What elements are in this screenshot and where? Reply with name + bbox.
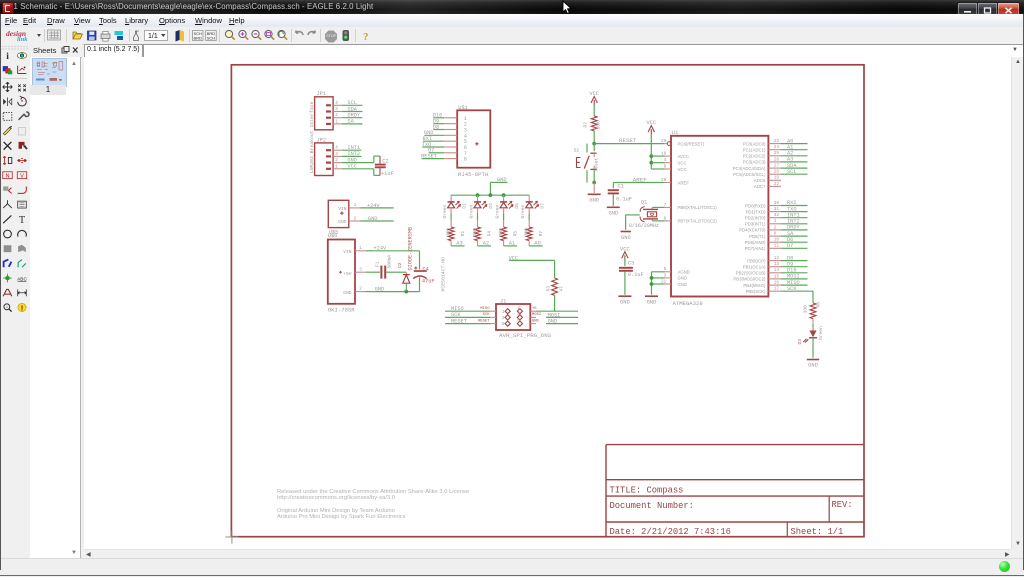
svg-text:1: 1 [335,118,338,124]
svg-text:C1: C1 [618,184,624,190]
svg-text:PC1(ADC1): PC1(ADC1) [743,148,766,153]
svg-text:16: 16 [774,281,780,286]
ground below C3 [618,296,631,305]
svg-text:23: 23 [774,139,780,144]
status bar [0,558,1024,577]
wire +5 from J1 to R3 [536,310,578,312]
tool icon wire [3,215,11,223]
svg-text:GND: GND [678,276,688,281]
svg-text:MISO: MISO [480,307,490,311]
svg-text:4: 4 [335,100,338,106]
svg-text:Green: Green [468,204,474,218]
svg-text:Document Number:: Document Number: [610,501,694,511]
power symbol VCC above C3 [620,246,630,266]
svg-text:29: 29 [661,139,667,144]
svg-text:SCK: SCK [787,286,797,292]
svg-text:Date: 2/21/2012 7:43:16: Date: 2/21/2012 7:43:16 [610,527,731,537]
ground below crystal [621,232,631,241]
svg-text:!: ! [21,305,23,312]
LED bank anode bus wire [451,193,529,197]
svg-text:SCL: SCL [347,100,357,106]
svg-text:INT1: INT1 [347,145,360,151]
svg-text:Arduino Pro Mini Design by Spa: Arduino Pro Mini Design by Spark Fun Ele… [277,514,406,520]
svg-text:30: 30 [774,201,780,206]
tool icon group [3,113,12,121]
svg-text:R6: R6 [815,302,821,308]
LED D3 [797,326,824,345]
svg-text:7: 7 [664,203,667,208]
svg-text:500mA: 500mA [387,254,393,268]
svg-text:Sheet: 1/1: Sheet: 1/1 [791,527,844,537]
tool icon erc [4,304,12,312]
connector J1 AVR_SPI_PRG_6NS [490,299,551,339]
vertical scrollbar [1011,57,1024,549]
tool icon move [3,82,12,91]
origin cross marker [225,531,238,544]
regulator U$5 [328,200,393,235]
svg-text:330: 330 [472,228,478,237]
capacitor C4 [404,251,434,294]
svg-text:PC0(ADC0): PC0(ADC0) [743,141,766,146]
tool icon rotate [18,96,27,106]
junction at RESET node [592,142,596,146]
svg-text:D7: D7 [787,243,793,249]
svg-text:330: 330 [524,228,530,237]
svg-text:GND: GND [608,211,618,217]
wire MISO to J1 [445,306,490,312]
svg-text:VCC: VCC [620,246,630,252]
LED D4 with resistor R4 to net A2 [468,195,494,247]
tool icon circle [4,230,12,238]
svg-text:Green: Green [442,204,448,218]
sheets panel body with sheet 1 thumbnail [30,57,81,558]
svg-text:3: 3 [335,151,338,157]
tool icon text [19,215,26,226]
svg-text:22: 22 [774,182,780,187]
svg-text:VCC: VCC [678,167,687,172]
svg-text:19: 19 [774,176,780,181]
svg-text:MISO: MISO [787,280,800,286]
command line entry [143,44,1024,58]
svg-text:http://creativecommons.org/lic: http://creativecommons.org/licenses/by-s… [277,495,395,501]
tool icon delete [4,142,12,150]
svg-text:PB2(SS/OC1B): PB2(SS/OC1B) [736,271,766,276]
tool icon value [17,172,26,180]
tool icon display layers [3,66,12,74]
svg-text:INT2: INT2 [787,219,800,225]
svg-text:RESET: RESET [451,318,467,324]
capacitor C3 [619,261,644,295]
U1 left pins [661,139,717,287]
resistor R2 [583,116,602,144]
svg-text:1: 1 [359,245,362,251]
svg-text:A0: A0 [787,138,793,144]
tool icon paste [19,128,26,135]
tool icon dimension [18,289,27,296]
tool icon smash [3,186,12,193]
svg-text:C2: C2 [382,159,388,165]
svg-text:GND: GND [338,219,347,225]
net label RESET [619,137,637,144]
svg-text:0.1uF: 0.1uF [628,272,644,278]
svg-text:U$1: U$1 [458,105,468,111]
connector JP2 [315,137,374,175]
svg-text:PC6(/RESET): PC6(/RESET) [678,141,705,146]
svg-text:R3: R3 [546,286,552,292]
svg-text:C4: C4 [422,267,428,273]
svg-text:RESET: RESET [421,153,437,159]
svg-text:2: 2 [359,286,362,292]
svg-text:R2: R2 [583,122,589,128]
svg-text:A1: A1 [787,144,793,150]
crystal Q1 [626,200,665,230]
label LSM303 Breakout Interface [309,101,315,173]
main toolbar [0,27,1024,45]
J1 red pin name MISO [480,307,490,311]
title block REV text [832,500,853,510]
svg-text:PD5(T1): PD5(T1) [749,234,766,239]
tool icon miter [18,186,27,193]
svg-text:47: 47 [559,286,565,292]
tool icon pinswap [3,156,12,165]
svg-text:F1: F1 [374,261,380,267]
svg-text:D8: D8 [433,124,439,130]
GND net label above LED bank [490,177,507,195]
title block grid [606,445,864,537]
svg-text:28: 28 [774,170,780,175]
J1 red pin name GND [532,319,540,323]
svg-text:GND: GND [589,198,599,204]
svg-text:0.1uF: 0.1uF [616,197,632,203]
svg-text:i: i [6,52,9,62]
schematic canvas [84,57,1011,549]
svg-text:PD0(RXD): PD0(RXD) [745,203,766,208]
title block Document Number text [610,501,694,511]
svg-text:PD7(AIN1): PD7(AIN1) [745,246,766,251]
ground below D3 [807,338,819,369]
svg-text:5: 5 [502,321,505,327]
svg-text:U$6: U$6 [328,233,338,239]
label PCE5014CT-ND [441,257,447,292]
svg-text:10K: 10K [595,121,601,130]
svg-text:Green: Green [494,204,500,218]
svg-text:3: 3 [359,266,362,272]
connector U$1 RJ45-8PTH [421,105,490,178]
svg-text:D2: D2 [397,262,403,268]
svg-text:1: 1 [335,163,338,169]
tool icon mirror [3,97,12,106]
credits note line 2 [277,514,406,520]
svg-text:32: 32 [774,213,780,218]
svg-text:A3: A3 [787,157,793,163]
svg-text:47uF: 47uF [422,278,435,284]
svg-text:SCH: SCH [207,36,216,41]
svg-text:4: 4 [517,311,520,317]
svg-text:PD2(INT0): PD2(INT0) [745,216,766,221]
svg-text:TITLE: Compass: TITLE: Compass [610,485,684,495]
svg-text:OKI-78SR: OKI-78SR [328,307,355,314]
svg-text:V: V [20,173,24,179]
svg-text:330: 330 [498,228,504,237]
menu bar [0,14,1024,28]
svg-text:GND: GND [647,299,657,305]
svg-text:AVR_SPI_PRG_6NS: AVR_SPI_PRG_6NS [499,332,552,339]
svg-text:RESET: RESET [478,319,490,323]
svg-text:J1: J1 [500,299,506,305]
tool icon label [17,276,27,282]
svg-text:SA: SA [787,231,794,237]
svg-text:ATMEGA328: ATMEGA328 [673,300,703,307]
svg-text:C3: C3 [628,261,634,267]
svg-text:MOSI: MOSI [787,274,800,280]
svg-text:MISO: MISO [451,306,464,312]
svg-text:PC4(ADC4/SDA): PC4(ADC4/SDA) [733,166,766,171]
mouse cursor [560,0,574,16]
svg-text:ADC6: ADC6 [754,178,766,183]
svg-text:=: = [6,305,9,310]
schematic sheet frame [231,65,864,537]
svg-text:1: 1 [502,309,505,315]
svg-text:D7: D7 [540,203,546,209]
svg-text:1: 1 [774,219,777,224]
title block TITLE text [610,485,684,495]
svg-text:27: 27 [774,164,780,169]
svg-text:8: 8 [664,216,667,221]
J1 red pin name SCK [483,313,491,317]
wire SCK to R6 [812,291,814,303]
svg-text:31: 31 [774,207,780,212]
svg-text:AGND: AGND [678,270,690,275]
ground below reset switch [588,183,601,204]
svg-text:AVCC: AVCC [678,154,690,159]
svg-text:2: 2 [354,215,357,221]
net label VCC near J1 [509,255,555,261]
svg-text:A3: A3 [456,241,462,247]
svg-text:VCC: VCC [347,164,357,170]
svg-text:RJ45-8PTH: RJ45-8PTH [458,171,488,178]
svg-text:PB1(OC1A): PB1(OC1A) [743,265,766,270]
wire SCK to J1 [445,312,490,318]
U1 right net wires and labels [781,138,808,285]
tool icon change wrench [19,112,29,120]
ground below C1 [607,207,620,216]
svg-text:1/1: 1/1 [148,33,158,40]
junction below reset switch [592,181,596,185]
IC U1 ATMEGA328 body [671,130,768,307]
svg-text:+24V: +24V [367,203,381,209]
svg-text:JP1: JP1 [317,91,327,97]
svg-text:2: 2 [335,112,338,118]
svg-text:10: 10 [774,238,780,243]
svg-text:Green: Green [520,204,526,218]
svg-text:TXO: TXO [787,206,797,212]
svg-text:Green: Green [818,326,824,340]
credits note line 1 [277,508,395,514]
svg-text:GND: GND [347,157,357,163]
svg-text:13: 13 [774,262,780,267]
svg-text:AREF: AREF [678,180,690,185]
wire RESET to J1 [445,318,490,324]
svg-text:SCK: SCK [483,313,491,317]
tool icon invoke [18,201,27,208]
tool icon info [6,52,9,62]
regulator U$6 OKI-78SR [328,233,420,314]
svg-text:JP2: JP2 [317,137,327,143]
tool icon rect [4,245,12,252]
J1 red pin name +5 [532,307,537,311]
tool icon bus [4,260,12,268]
capacitor C1 [608,176,665,206]
svg-text:INT2: INT2 [347,151,360,157]
svg-text:A1: A1 [509,241,515,247]
svg-text:PCE5014CT-ND: PCE5014CT-ND [441,257,447,292]
resistor R6 [803,302,822,319]
svg-text:?: ? [363,31,369,43]
wire RESET to U1 pin 29 [594,143,665,145]
wire R6 to D3 [812,319,814,331]
svg-text:PB7(XTAL2/TOSC2): PB7(XTAL2/TOSC2) [678,219,718,224]
fuse F1 [374,254,399,278]
title block Date text [610,527,731,537]
svg-text:1: 1 [354,202,357,208]
svg-text:3: 3 [502,315,505,321]
svg-text:SCK: SCK [451,312,461,318]
svg-text:25: 25 [774,151,780,156]
window title bar [0,0,1024,14]
tool icon cut knife [3,126,12,135]
svg-text:3: 3 [335,106,338,112]
svg-text:STOP: STOP [326,34,336,38]
LED D5 with resistor R5 to net A1 [494,195,520,247]
tool icon gateswap [17,158,26,163]
svg-text:24: 24 [774,145,780,150]
svg-text:PB3(MOSI/OC2): PB3(MOSI/OC2) [733,277,766,282]
svg-text:PB0(ICP): PB0(ICP) [747,258,766,263]
svg-text:D3: D3 [797,339,803,345]
svg-text:GND: GND [808,363,818,369]
svg-text:INT1: INT1 [787,212,800,218]
svg-text:AREF: AREF [633,176,647,183]
svg-text:D5: D5 [514,203,520,209]
svg-text:17: 17 [774,287,780,292]
svg-text:T: T [19,215,26,226]
sheets panel header [30,44,82,58]
connector JP1 [315,91,363,130]
tool icon polygon [18,245,26,252]
svg-text:4: 4 [335,145,338,151]
svg-text:D1: D1 [461,203,467,209]
svg-text:GND: GND [548,319,558,325]
tool icon net [18,260,26,268]
svg-text:PC2(ADC2): PC2(ADC2) [743,154,766,159]
svg-text:R4: R4 [486,231,492,237]
svg-text:20: 20 [661,178,667,183]
svg-text:PD6(AIN0): PD6(AIN0) [745,240,766,245]
tool icon show eye [17,53,26,59]
svg-text:2: 2 [517,305,520,311]
svg-text:PB4(MISO): PB4(MISO) [743,283,766,288]
power symbol VCC at U1 supply bus [646,120,664,169]
svg-text:SCL: SCL [787,169,797,175]
svg-text:VIN: VIN [338,206,347,212]
svg-text:11: 11 [774,244,780,249]
svg-text:S2: S2 [574,148,580,154]
svg-text:RXI: RXI [787,200,797,206]
svg-text:MOSI: MOSI [532,313,541,317]
tool icon split [3,200,12,208]
svg-text:+1uF: +1uF [381,171,394,177]
wire GND from J1 [546,319,578,325]
tool icon errors [18,303,26,312]
svg-text:U1: U1 [672,130,678,136]
svg-text:PC3(ADC3): PC3(ADC3) [743,160,766,165]
svg-text:PB6(XTAL1/TOSC1): PB6(XTAL1/TOSC1) [678,205,718,210]
zener diode D2 [397,227,413,292]
svg-text:A0: A0 [534,241,540,247]
svg-text:+5V: +5V [343,271,352,277]
svg-text:15: 15 [774,274,780,279]
svg-text:D9: D9 [787,261,793,267]
svg-text:N: N [5,173,9,179]
capacitor C2 [374,156,394,177]
tool icon add [19,142,28,150]
svg-text:SDA: SDA [787,163,797,169]
J1 red pin name RESET [478,319,490,323]
ground bus at U1 AGND GND pins [645,272,665,306]
svg-text:BRD: BRD [194,36,203,41]
svg-text:A2: A2 [483,241,489,247]
tool icon arc [18,230,27,236]
svg-text:A2: A2 [787,151,793,157]
coordinate display [84,44,143,58]
svg-text:Q1: Q1 [641,200,647,206]
svg-text:14: 14 [774,268,780,273]
svg-text:DRDY: DRDY [787,225,801,231]
tool icon attribute [3,289,12,296]
svg-text:8: 8 [464,157,467,163]
svg-text:R7: R7 [538,231,544,237]
svg-text:330: 330 [446,228,452,237]
svg-text:+5: +5 [532,307,537,311]
svg-text:PC5(ADC5/SCL): PC5(ADC5/SCL) [733,172,766,177]
svg-text:D8: D8 [787,255,793,261]
svg-text:VCC: VCC [646,120,656,126]
svg-text:GND: GND [368,216,378,222]
svg-text:2: 2 [335,157,338,163]
svg-text:MOSI: MOSI [548,312,561,318]
svg-text:PD1(TXD): PD1(TXD) [746,209,766,214]
net label SCK wire [781,286,813,292]
license note line 1 [277,489,469,495]
svg-text:GND: GND [620,299,630,305]
svg-text:D6: D6 [787,237,793,243]
svg-text:DIODE-ZENERSMB: DIODE-ZENERSMB [407,227,413,271]
LED D1 with resistor R1 to net A3 [442,195,468,247]
U1 right pins [733,139,781,294]
svg-text:ADC7: ADC7 [754,184,766,189]
svg-text:2: 2 [774,225,777,230]
svg-text:SDA: SDA [347,106,357,112]
svg-text:REV:: REV: [832,500,853,510]
license note line 2 [277,495,395,501]
svg-text:12: 12 [774,256,780,261]
horizontal scrollbar [84,549,1011,559]
svg-text:D10: D10 [787,268,797,274]
tool icon copy [18,84,26,91]
svg-text:GND: GND [621,235,631,241]
tool icon junction [3,274,12,283]
svg-text:R5: R5 [512,231,518,237]
